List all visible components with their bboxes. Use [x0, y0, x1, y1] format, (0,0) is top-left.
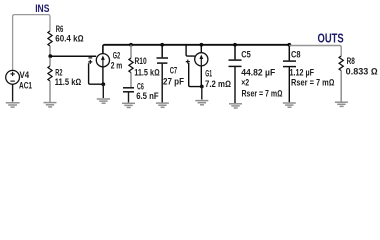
ground below R2 — [44, 103, 57, 107]
capacitor C6 — [123, 88, 134, 92]
svg-text:Rser = 7 mΩ: Rser = 7 mΩ — [291, 78, 335, 88]
node C8 dot — [287, 43, 291, 47]
svg-text:C5: C5 — [241, 50, 251, 60]
svg-text:R10: R10 — [135, 56, 147, 66]
node junction dot R6/R2 — [48, 54, 52, 58]
svg-text:2 m: 2 m — [111, 60, 123, 70]
node G1 bottom dot — [200, 85, 204, 89]
wire R10 top stub — [130, 45, 132, 58]
svg-text:R2: R2 — [55, 67, 62, 77]
node C7 dot — [160, 43, 164, 47]
wire G2 control L to bottom node — [89, 63, 104, 84]
ground below V4 — [6, 103, 20, 107]
wire R2 top stub — [49, 58, 51, 67]
svg-text:60.4 kΩ: 60.4 kΩ — [55, 34, 83, 44]
svg-text:R6: R6 — [56, 24, 64, 34]
node R10 dot — [129, 43, 133, 47]
resistor R6 — [48, 31, 52, 46]
svg-text:6.5 nF: 6.5 nF — [136, 91, 159, 101]
wire G2 bottom stub — [102, 67, 104, 84]
svg-text:INS: INS — [35, 3, 49, 15]
wire G1 control riser from bus — [186, 45, 195, 56]
node C5 dot — [233, 43, 237, 47]
svg-text:AC1: AC1 — [19, 81, 32, 91]
resistor R10 — [129, 58, 133, 73]
ground below G2 — [97, 99, 110, 103]
wire R2 bottom stub — [49, 81, 51, 102]
voltage source V4 — [6, 70, 20, 84]
ground below C6 — [122, 103, 135, 107]
svg-text:C6: C6 — [137, 82, 144, 92]
ground below C5 — [229, 104, 242, 108]
wire C7 bottom stub — [161, 64, 163, 103]
capacitor C8 — [283, 61, 296, 67]
wire C8 bottom stub — [288, 67, 290, 102]
ground below C7 — [156, 103, 169, 107]
wire R10 to C6 — [130, 73, 132, 88]
svg-text:11.5 kΩ: 11.5 kΩ — [55, 77, 82, 87]
ground below R8 — [335, 102, 348, 106]
wire G1 bottom stub — [200, 66, 202, 87]
G2 minus mark — [88, 57, 92, 59]
wire G1 top stub — [200, 45, 202, 53]
wire OUTS segment to R8 — [289, 46, 341, 57]
node G1 top dot — [200, 43, 204, 47]
current source G2 — [96, 54, 109, 67]
wire C6 bottom stub — [128, 92, 130, 103]
wire G2 top stub to bus — [103, 45, 105, 54]
svg-text:7.2 mΩ: 7.2 mΩ — [205, 79, 231, 89]
svg-text:G1: G1 — [205, 68, 212, 78]
node G2 bottom dot — [101, 82, 105, 86]
svg-text:11.5 kΩ: 11.5 kΩ — [134, 67, 160, 77]
wire G1 control L to bottom node — [189, 63, 202, 87]
wire C7 top stub — [161, 45, 163, 58]
svg-text:R8: R8 — [347, 56, 355, 66]
capacitor C7 — [157, 58, 169, 63]
svg-text:27 pF: 27 pF — [163, 76, 184, 86]
svg-text:1.12 µF: 1.12 µF — [290, 68, 315, 78]
ground below C8 — [283, 103, 296, 107]
svg-text:OUTS: OUTS — [318, 32, 344, 46]
svg-text:V4: V4 — [20, 70, 30, 80]
resistor R2 — [48, 66, 52, 81]
wire C8 top stub — [288, 45, 290, 61]
wire R6 bottom stub — [49, 46, 51, 55]
wire main bus — [104, 44, 290, 46]
G1 plus mark — [186, 60, 190, 64]
svg-text:×2: ×2 — [241, 77, 249, 87]
svg-text:Rser = 7 mΩ: Rser = 7 mΩ — [242, 88, 283, 98]
svg-text:0.833 Ω: 0.833 Ω — [346, 67, 378, 77]
ground below G1 — [195, 101, 208, 105]
G2 plus mark — [88, 60, 92, 64]
svg-text:C8: C8 — [291, 50, 301, 60]
resistor R8 — [339, 56, 343, 71]
wire G1 to ground — [201, 87, 203, 100]
current source G1 — [195, 53, 208, 66]
wire V4 bottom stub — [12, 84, 14, 101]
wire R8 bottom stub — [340, 71, 342, 102]
svg-text:44.82 µF: 44.82 µF — [241, 67, 275, 77]
svg-text:G2: G2 — [113, 51, 120, 61]
capacitor C5 — [229, 60, 242, 66]
svg-text:C7: C7 — [170, 65, 178, 75]
wire control net to G2 — [50, 55, 96, 57]
wire INS loop from V4 to R6 — [13, 15, 50, 71]
wire C5 top stub — [234, 45, 236, 60]
wire G2 to ground — [102, 84, 104, 98]
wire C5 bottom stub — [234, 67, 236, 103]
